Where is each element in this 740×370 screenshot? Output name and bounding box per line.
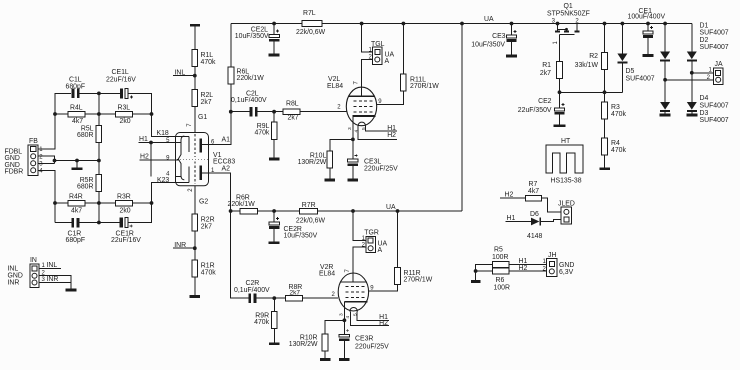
svg-text:INL: INL	[8, 265, 19, 272]
svg-text:HT: HT	[561, 138, 571, 145]
svg-text:22uF/350V: 22uF/350V	[518, 107, 552, 114]
wire TGL pin1 to rail	[362, 24, 373, 53]
wire JA pin1 to bridge right mid	[692, 72, 714, 74]
svg-text:INR: INR	[174, 242, 186, 249]
V1 grid 1 (dashed)	[194, 134, 196, 157]
node R9R tap	[272, 296, 276, 300]
diode D1 upper right of bridge	[691, 24, 693, 52]
svg-text:JA: JA	[715, 61, 723, 68]
wire TGL pin2 to V2L anode pin 7	[362, 60, 373, 97]
resistor R7R 22k/0.6W	[300, 208, 318, 214]
svg-text:FDBR: FDBR	[5, 169, 24, 176]
capacitor CE1L 22uF/16V	[120, 88, 123, 98]
svg-text:H2: H2	[387, 132, 396, 139]
resistor R5R 680R	[96, 175, 102, 192]
svg-text:SUF4007: SUF4007	[700, 44, 729, 51]
wire C2R to R8R with R9R tap	[256, 297, 285, 299]
connector TGR (triode/UL jumper)	[366, 236, 376, 252]
Q1 gate	[560, 35, 575, 62]
wire R1L to R2L with INL tap	[173, 67, 195, 90]
V1 cathode 2 (pin 3)	[176, 167, 190, 183]
svg-text:22k/0,6W: 22k/0,6W	[296, 29, 326, 36]
svg-text:SUF4007: SUF4007	[700, 103, 729, 110]
capacitor C1R 680pF	[71, 218, 74, 228]
svg-text:680R: 680R	[77, 132, 93, 139]
svg-text:22uF/16V: 22uF/16V	[106, 76, 136, 83]
node ground row	[53, 159, 57, 163]
resistor R1L 470k	[192, 50, 198, 67]
svg-text:SUF4007: SUF4007	[626, 75, 655, 82]
ground (CE3R)	[339, 358, 350, 361]
ground (CE1)	[643, 54, 654, 57]
svg-text:C2R: C2R	[246, 280, 260, 287]
capacitor CE1 100uF/400V (main filter)	[647, 24, 649, 32]
wire INR stub from IN pin3	[39, 282, 71, 284]
resistor R4L 4k7	[68, 111, 85, 117]
node mid bottom	[97, 201, 101, 205]
wire R8L to V2L grid pin 2	[300, 111, 346, 113]
resistor R7 4k7 (LED dropper)	[500, 197, 525, 199]
resistor R11L 270R/1W (screen)	[402, 24, 404, 75]
wire cathode net K18 to V1 pin 8	[128, 93, 175, 136]
resistor R10L 130R/2W (cathode bias)	[330, 139, 353, 151]
resistor R2L 2k7	[192, 90, 198, 107]
V2R heater arch	[350, 308, 358, 312]
svg-text:R7: R7	[529, 181, 538, 188]
diode D6 4148	[505, 221, 531, 223]
ground (R4)	[599, 167, 610, 170]
svg-text:A: A	[385, 58, 390, 65]
connector TGL (triode/UL jumper)	[373, 47, 383, 64]
ground (FB)	[72, 167, 83, 170]
capacitor CE2R 10uF/350V	[273, 211, 275, 222]
svg-text:R1: R1	[542, 62, 551, 69]
svg-text:2k0: 2k0	[120, 118, 131, 125]
svg-text:6,3V: 6,3V	[559, 269, 574, 276]
svg-text:SUF4007: SUF4007	[700, 117, 729, 124]
svg-text:CE1L: CE1L	[112, 69, 129, 76]
capacitor CE2L 10uF/350V	[273, 24, 275, 35]
svg-text:ECC83: ECC83	[213, 158, 235, 165]
ground (IN)	[66, 289, 77, 292]
svg-text:2k7: 2k7	[290, 289, 301, 296]
svg-text:22k/0,6W: 22k/0,6W	[296, 217, 326, 224]
svg-text:220uF/25V: 220uF/25V	[355, 343, 389, 350]
connector JH (heater supply)	[547, 259, 557, 277]
svg-text:CE3: CE3	[492, 33, 506, 40]
capacitor CE1R 22uF/16V	[120, 218, 123, 228]
svg-text:100R: 100R	[492, 254, 508, 261]
wire V2R cathode down	[343, 302, 345, 321]
connector IN	[30, 264, 39, 288]
wire R7 to JLED pin1	[541, 198, 561, 212]
svg-text:A1: A1	[222, 136, 231, 143]
wire ground to R1L	[194, 27, 196, 50]
wire heater H1 to V1 pins 5,4	[139, 143, 176, 177]
resistor R9L 470k (grid leak)	[273, 112, 275, 122]
svg-text:220k/1W: 220k/1W	[237, 75, 265, 82]
V1 anode 2 (pin 1)	[200, 166, 202, 181]
svg-text:100R: 100R	[494, 285, 510, 292]
resistor R2 33k/1W	[604, 24, 606, 53]
wire TGR pin2 to V2R anode pin 7	[353, 247, 366, 282]
wire UA row (right channel supply)	[258, 210, 462, 212]
svg-text:4k7: 4k7	[528, 188, 539, 195]
V1 anode 1 (pin 6)	[200, 139, 202, 153]
wire FDBR from FB pin4 down to lower network	[38, 170, 68, 222]
ground (CE2)	[554, 124, 566, 127]
resistor R8L 2k7 (grid stopper)	[283, 109, 300, 115]
ground (CE3L)	[348, 179, 359, 182]
node rail junctions	[272, 22, 276, 26]
resistor R1 2k7 (gate)	[557, 62, 563, 79]
svg-text:22uF/16V: 22uF/16V	[111, 237, 141, 244]
wire V2L heater to H1	[365, 126, 396, 131]
svg-text:R7L: R7L	[303, 10, 316, 17]
node V2L cathode	[351, 138, 355, 142]
svg-text:4148: 4148	[527, 233, 542, 240]
diode D5 SUF4007	[621, 24, 623, 54]
svg-text:INR: INR	[8, 280, 20, 287]
node K18 column	[150, 112, 154, 116]
diode D4 lower right of bridge	[687, 102, 697, 110]
svg-text:SUF4007: SUF4007	[700, 30, 729, 37]
capacitor C1L	[72, 89, 75, 99]
svg-text:680pF: 680pF	[66, 237, 86, 244]
svg-text:2k7: 2k7	[540, 70, 551, 77]
svg-text:A: A	[378, 247, 383, 254]
ground (R5/R6)	[471, 280, 481, 283]
svg-text:H1: H1	[519, 258, 528, 265]
ground (CE2R)	[269, 241, 280, 244]
svg-text:Q1: Q1	[564, 3, 573, 10]
node bridge left mid	[663, 78, 667, 82]
resistor R3 470k	[604, 92, 606, 102]
wire R5 to JH pin1 (H1)	[509, 263, 547, 265]
svg-text:270R/1W: 270R/1W	[410, 83, 439, 90]
svg-text:CE3R: CE3R	[355, 335, 373, 342]
wire heater H2 to V1 pin 9	[140, 159, 176, 161]
wire R1R to ground	[194, 277, 196, 295]
svg-text:INR: INR	[47, 276, 59, 283]
svg-text:JLED: JLED	[558, 200, 575, 207]
V2L cathode line	[353, 115, 376, 117]
svg-text:JH: JH	[548, 252, 556, 259]
resistor R6R 220k/1W (anode load)	[231, 210, 240, 212]
svg-text:R3L: R3L	[118, 104, 131, 111]
wire JA pin2 to bridge left mid	[665, 79, 714, 81]
svg-text:130R/2W: 130R/2W	[289, 341, 318, 348]
V1 heater (pins 4,5,9)	[178, 136, 184, 180]
svg-text:3: 3	[347, 127, 353, 130]
resistor R2R 2k7	[192, 214, 198, 231]
svg-text:R7R: R7R	[302, 202, 316, 209]
node R6 ground junction	[474, 269, 478, 273]
svg-text:G1: G1	[198, 114, 207, 121]
svg-text:130R/2W: 130R/2W	[298, 159, 327, 166]
svg-text:D4: D4	[700, 95, 709, 102]
V2R anode plate	[340, 281, 366, 283]
resistor R1R 470k	[192, 260, 198, 277]
capacitor CE3 10uF/350V (PSU)	[511, 24, 513, 36]
ground (R1R)	[190, 295, 201, 298]
node bridge right mid	[690, 71, 694, 75]
node gate ref junctions	[558, 90, 562, 94]
svg-text:R4L: R4L	[70, 104, 83, 111]
V1 grid 2 (dashed)	[194, 161, 196, 184]
node mid top	[97, 92, 101, 96]
svg-text:GND: GND	[8, 273, 23, 280]
svg-text:680pF: 680pF	[66, 83, 86, 90]
resistor R9R 470k	[273, 298, 275, 311]
svg-text:R5: R5	[494, 246, 503, 253]
node V2R cathode	[343, 318, 347, 322]
wire V2R heater to H2	[351, 312, 389, 326]
svg-text:220k/1W: 220k/1W	[228, 201, 256, 208]
ground (R9R)	[269, 342, 280, 345]
wire UA supply rail	[231, 24, 692, 212]
svg-text:HS135-38: HS135-38	[551, 177, 582, 184]
wire V2L cathode down	[352, 116, 354, 139]
svg-text:R8L: R8L	[286, 101, 299, 108]
wire lower mid node	[55, 192, 120, 223]
svg-text:470k: 470k	[201, 59, 216, 66]
svg-text:R2L: R2L	[201, 92, 214, 99]
svg-text:TGL: TGL	[371, 41, 385, 48]
svg-text:R4: R4	[611, 140, 620, 147]
svg-text:270R/1W: 270R/1W	[404, 277, 433, 284]
svg-text:FB: FB	[29, 138, 38, 145]
resistor R8R 2k7	[285, 295, 302, 301]
resistor R10R 130R/2W	[325, 320, 344, 334]
capacitor CE3R 220uF/25V	[343, 320, 345, 334]
svg-text:220uF/25V: 220uF/25V	[364, 166, 398, 173]
pentode V2L EL84 envelope	[346, 87, 376, 126]
resistor R11R 270R/1W (screen)	[397, 211, 399, 268]
svg-text:UA: UA	[386, 204, 396, 211]
svg-text:D5: D5	[626, 68, 635, 75]
svg-text:H2: H2	[379, 320, 388, 327]
wire FDBL from FB pin1 up to feedback network	[38, 93, 71, 148]
svg-text:TGR: TGR	[364, 230, 379, 237]
resistor R4 470k	[602, 138, 608, 155]
wire TGR pin1 to UA row	[353, 211, 366, 241]
svg-text:H1: H1	[507, 215, 516, 222]
resistor R6 100R (humdinger)	[493, 268, 509, 274]
wire INL stub from IN pin1	[39, 268, 61, 270]
svg-text:H1: H1	[139, 136, 148, 143]
V1 system divider (dotted)	[177, 158, 209, 160]
svg-text:4: 4	[345, 316, 351, 319]
svg-text:CE3L: CE3L	[364, 159, 381, 166]
wire anode node A1	[210, 84, 250, 145]
connector FB	[28, 145, 38, 176]
resistor R3R 2k0	[116, 200, 133, 206]
svg-text:R1L: R1L	[201, 52, 214, 59]
ground (bridge left)	[660, 114, 671, 117]
svg-text:EL84: EL84	[327, 83, 343, 90]
resistor R4R 4k7	[68, 200, 85, 206]
wire V2L heater to H2	[358, 126, 397, 139]
svg-text:H2: H2	[505, 191, 514, 198]
ground (CE3 PSU)	[506, 55, 517, 58]
svg-text:K23: K23	[157, 177, 169, 184]
svg-text:D1: D1	[700, 22, 709, 29]
svg-text:33k/1W: 33k/1W	[575, 62, 599, 69]
V2L anode plate	[349, 95, 375, 97]
node FDBL/R4L junction	[53, 112, 57, 116]
node R9L tap	[272, 110, 276, 114]
node K23 column	[150, 201, 154, 205]
wire R8R to V2R grid pin 2	[302, 297, 338, 299]
svg-text:EL84: EL84	[319, 270, 335, 277]
svg-text:680R: 680R	[77, 183, 93, 190]
svg-text:R3: R3	[611, 104, 620, 111]
diode D3 lower left of bridge	[660, 102, 670, 110]
V2L grids (dashed rows)	[354, 100, 375, 102]
node INL tap	[193, 74, 197, 78]
svg-text:R2R: R2R	[201, 216, 215, 223]
ground (R10L)	[325, 179, 336, 182]
connector JLED	[561, 207, 571, 224]
V2R cathode line	[345, 301, 368, 303]
ground (CE2L)	[269, 54, 280, 57]
ground (R9L)	[269, 158, 280, 161]
wire cathode net K23 from V1 pin 3	[128, 183, 176, 223]
wire middle feedback node	[80, 93, 121, 125]
V2R grids (dashed rows)	[346, 286, 367, 288]
resistor R5L 680R	[96, 126, 102, 143]
svg-text:GND: GND	[559, 262, 574, 269]
node UA row junctions	[229, 209, 233, 213]
svg-text:G2: G2	[199, 198, 208, 205]
svg-text:A2: A2	[222, 166, 231, 173]
wire R6 to JH pin2 (H2)	[509, 270, 547, 272]
ground (R1L top, inverted)	[190, 24, 200, 27]
svg-text:470k: 470k	[254, 319, 269, 326]
ground (bridge right)	[686, 114, 697, 117]
svg-text:D2: D2	[700, 37, 709, 44]
svg-text:2k7: 2k7	[201, 99, 212, 106]
resistor R5 100R (humdinger)	[493, 261, 509, 267]
svg-text:10uF/350V: 10uF/350V	[284, 232, 318, 239]
wire C2L to R8L with R9L tap	[258, 111, 283, 113]
wire FB ground pins 2,3	[38, 156, 99, 167]
V2L heater arch	[358, 122, 366, 126]
svg-text:D6: D6	[530, 211, 539, 218]
svg-text:R4R: R4R	[69, 194, 83, 201]
capacitor C2R 0.1uF/400V	[248, 293, 251, 303]
svg-text:470k: 470k	[611, 147, 626, 154]
svg-text:470k: 470k	[254, 130, 269, 137]
V1 cathode 1 (pin 8)	[176, 136, 190, 152]
wire R5 column	[98, 143, 100, 175]
svg-text:2k0: 2k0	[120, 207, 131, 214]
triode V1 ECC83 body	[176, 133, 209, 186]
wire V2R heater to H1	[357, 311, 389, 320]
svg-text:UA: UA	[484, 16, 494, 23]
pentode V2R EL84 envelope	[338, 273, 368, 311]
capacitor CE3L 220uF/25V (cathode bypass)	[352, 139, 354, 159]
wire R2R to R1R with INR tap	[173, 231, 195, 260]
resistor R3L 2k0	[116, 111, 133, 117]
svg-text:4k7: 4k7	[71, 207, 82, 214]
svg-text:2k7: 2k7	[288, 114, 299, 121]
wire anode node A2 from V1 pin 1	[210, 173, 250, 298]
svg-text:470k: 470k	[611, 111, 626, 118]
diode D2 upper left of bridge	[664, 24, 666, 52]
svg-text:0,1uF/400V: 0,1uF/400V	[234, 287, 270, 294]
svg-text:3: 3	[339, 313, 345, 316]
svg-text:H2: H2	[519, 265, 528, 272]
wire ground to R5/R6	[476, 264, 493, 280]
svg-text:CE2: CE2	[538, 98, 552, 105]
capacitor C2L 0.1uF/400V	[250, 107, 253, 117]
node H1 junction at V1	[149, 141, 153, 145]
wire D6 to JLED pin2	[541, 219, 561, 221]
ground (R10R)	[320, 358, 331, 361]
wire G1 to V1 pin 7	[194, 107, 196, 134]
svg-text:INL: INL	[47, 262, 58, 269]
node A1/C2L/R6L	[229, 110, 233, 114]
svg-text:K18: K18	[157, 130, 169, 137]
heatsink HT HS135-38	[546, 145, 583, 173]
node INR tap	[193, 246, 197, 250]
svg-text:0,1uF/400V: 0,1uF/400V	[231, 97, 267, 104]
svg-text:R6: R6	[496, 277, 505, 284]
capacitor CE2 22uF/350V	[559, 92, 561, 108]
svg-text:STP5NK50ZF: STP5NK50ZF	[547, 10, 590, 17]
svg-text:IN: IN	[30, 257, 37, 264]
resistor R7L 22k/0.6W (rail series)	[302, 21, 322, 27]
svg-text:D3: D3	[700, 110, 709, 117]
svg-text:INL: INL	[175, 69, 186, 76]
svg-text:100uF/400V: 100uF/400V	[628, 14, 666, 21]
node FDBR/R4R junction	[53, 201, 57, 205]
svg-text:R2: R2	[589, 53, 598, 60]
wire G2 from V1 pin 2	[194, 186, 196, 215]
svg-text:H2: H2	[140, 154, 149, 161]
connector JA (AC input)	[714, 68, 723, 84]
wire IN pin2 to ground	[39, 276, 71, 289]
svg-text:4k7: 4k7	[72, 118, 83, 125]
svg-text:470k: 470k	[201, 270, 216, 277]
svg-text:R1R: R1R	[201, 262, 215, 269]
resistor R6L 220k/1W (anode load)	[230, 24, 232, 68]
svg-text:2k7: 2k7	[201, 224, 212, 231]
wire gate reference node	[560, 79, 623, 93]
svg-text:10uF/350V: 10uF/350V	[235, 33, 269, 40]
svg-text:R3R: R3R	[117, 194, 131, 201]
svg-text:10uF/350V: 10uF/350V	[471, 41, 505, 48]
